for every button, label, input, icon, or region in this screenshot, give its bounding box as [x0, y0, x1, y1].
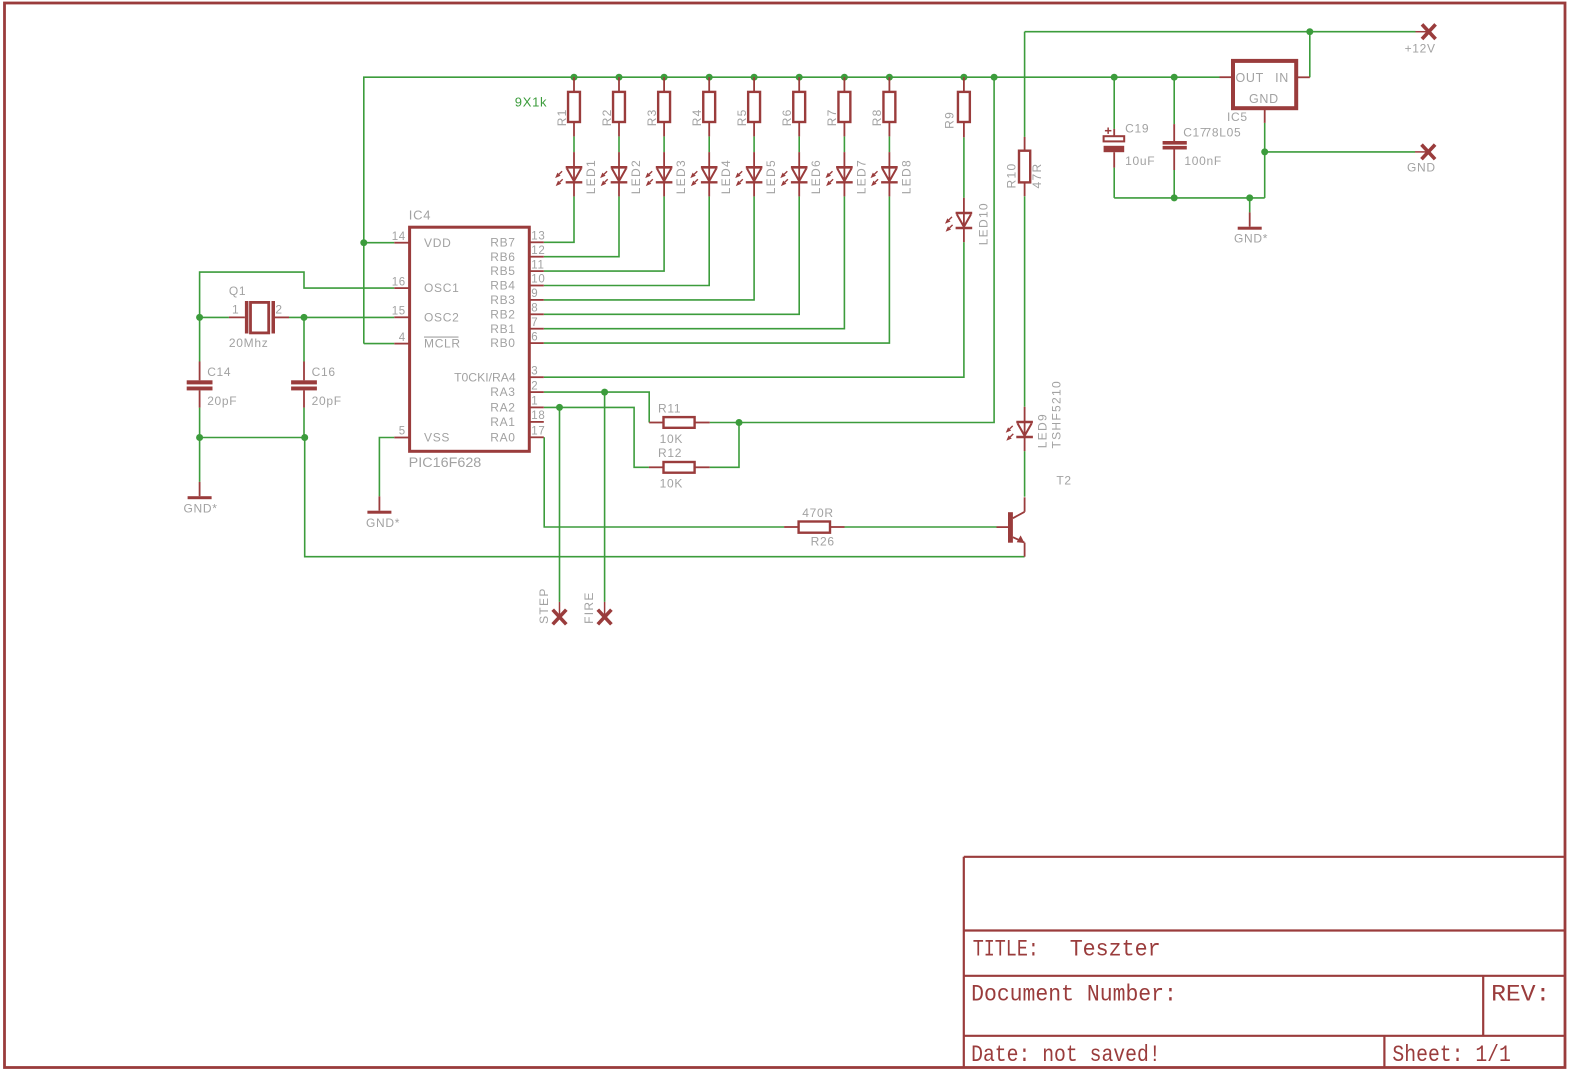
- svg-text:RA0: RA0: [490, 430, 515, 444]
- svg-text:REV:: REV:: [1491, 981, 1550, 1007]
- capacitor C19 polarized: [1113, 129, 1115, 137]
- svg-text:LED2: LED2: [629, 159, 643, 194]
- svg-text:2: 2: [531, 380, 538, 392]
- pin 3 T0CKI/RA4: [529, 376, 544, 378]
- pin 14 VDD: [394, 242, 409, 244]
- wire net RA3 to R11: [544, 392, 649, 422]
- svg-text:VSS: VSS: [424, 431, 450, 445]
- svg-text:RB6: RB6: [490, 250, 515, 264]
- wire C14 column: [199, 317, 201, 361]
- wire net RB2: [798, 136, 800, 152]
- pin 11 RB5: [529, 270, 544, 272]
- junction VDD: [360, 239, 367, 246]
- svg-text:2: 2: [275, 302, 282, 316]
- svg-text:C19: C19: [1125, 122, 1149, 136]
- wire C14 to GND: [199, 438, 201, 482]
- wire cap ground row: [1114, 197, 1265, 199]
- pin 18 RA1: [529, 421, 544, 423]
- svg-text:1: 1: [232, 302, 239, 316]
- svg-text:17: 17: [531, 426, 545, 438]
- net flag +12V: [1416, 31, 1429, 33]
- wire R11/R12 pullup to +5V: [710, 77, 994, 422]
- LED LED1: [573, 152, 575, 196]
- wire +12V to R10: [1024, 32, 1026, 137]
- LED LED4: [708, 152, 710, 196]
- svg-text:13: 13: [531, 231, 545, 243]
- LED LED3: [663, 152, 665, 196]
- svg-text:C17: C17: [1183, 126, 1207, 140]
- wire +12V to IN: [1309, 32, 1311, 78]
- junction FIRE: [601, 389, 608, 396]
- wire OSC2 / crystal: [200, 316, 229, 318]
- svg-text:GND*: GND*: [184, 501, 218, 515]
- LED LED7: [843, 152, 845, 196]
- svg-text:GND*: GND*: [1234, 232, 1268, 246]
- wire FIRE: [604, 392, 606, 602]
- pin 8 RB2: [529, 313, 544, 315]
- IC IC5 78L05 regulator: [1233, 61, 1296, 108]
- svg-text:RB4: RB4: [490, 279, 515, 293]
- junction C17 bottom: [1171, 194, 1178, 201]
- resistor R26: [784, 526, 799, 528]
- svg-text:47R: 47R: [1030, 163, 1044, 189]
- svg-text:RB5: RB5: [490, 264, 515, 278]
- wire net RB5: [663, 136, 665, 152]
- svg-text:6: 6: [531, 331, 538, 343]
- svg-text:9: 9: [531, 288, 538, 300]
- junction C14 bottom: [196, 434, 203, 441]
- LED LED8: [888, 152, 890, 196]
- svg-text:T0CKI/RA4: T0CKI/RA4: [454, 370, 516, 384]
- wire LED9 to T2 collector: [1024, 451, 1026, 497]
- svg-text:STEP: STEP: [537, 587, 551, 624]
- svg-text:LED10: LED10: [977, 202, 991, 245]
- wire net RA0 to R26: [544, 437, 784, 527]
- junction rail dots: [571, 74, 578, 81]
- resistor R8: [888, 77, 890, 92]
- resistor R6: [798, 77, 800, 92]
- pin 10 RB4: [529, 285, 544, 287]
- LED LED10: [963, 198, 965, 242]
- resistor R1: [573, 77, 575, 92]
- svg-text:R2: R2: [600, 108, 614, 126]
- svg-text:Teszter: Teszter: [1070, 937, 1161, 963]
- wire R12 link: [710, 423, 739, 468]
- resistor R10: [1024, 137, 1026, 151]
- resistor R5: [753, 77, 755, 92]
- svg-text:LED4: LED4: [719, 159, 733, 194]
- wire GND flag row: [1265, 151, 1415, 153]
- svg-text:18: 18: [531, 410, 545, 422]
- svg-text:3: 3: [531, 365, 538, 377]
- svg-text:LED1: LED1: [584, 159, 598, 194]
- svg-text:20pF: 20pF: [207, 394, 237, 408]
- wire R26 to T2 base: [845, 526, 997, 528]
- wire net RB4: [708, 136, 710, 152]
- LED LED6: [798, 152, 800, 196]
- svg-text:470R: 470R: [802, 506, 834, 520]
- wire VSS to GND: [379, 438, 394, 497]
- wire net RB7: [573, 136, 575, 152]
- wire +5V rail: [364, 77, 1220, 343]
- svg-text:LED6: LED6: [809, 159, 823, 194]
- wire MCLR pin4: [364, 343, 395, 345]
- svg-text:16: 16: [392, 276, 406, 288]
- svg-text:100nF: 100nF: [1184, 154, 1222, 168]
- LED LED5: [753, 152, 755, 196]
- pin 5 VSS: [394, 437, 409, 439]
- resistor R4: [708, 77, 710, 92]
- svg-text:Q1: Q1: [229, 284, 246, 298]
- wire net RB3: [753, 136, 755, 152]
- svg-text:LED9: LED9: [1036, 413, 1050, 448]
- net flag STEP: [559, 602, 561, 617]
- svg-text:7: 7: [531, 317, 538, 329]
- svg-text:VDD: VDD: [424, 236, 451, 250]
- junction R11 out: [736, 419, 743, 426]
- wire net RA4 / LED10: [963, 137, 965, 198]
- wire to GND*: [1249, 198, 1251, 213]
- svg-text:5: 5: [399, 426, 406, 438]
- transistor T2: [1008, 512, 1013, 543]
- pin 12 RB6: [529, 256, 544, 258]
- title block frame: [963, 857, 965, 1067]
- junction IC5 gnd: [1261, 148, 1268, 155]
- svg-text:R12: R12: [658, 446, 682, 460]
- LED LED2: [618, 152, 620, 196]
- svg-text:OUT: OUT: [1236, 71, 1265, 85]
- wire VDD pin14: [364, 242, 395, 244]
- wire C16 column: [303, 317, 305, 361]
- wire OSC1: [200, 272, 395, 317]
- svg-text:1: 1: [531, 396, 538, 408]
- wire gnd row under caps: [200, 437, 305, 439]
- pin 16 OSC1: [394, 287, 409, 289]
- svg-text:R6: R6: [780, 108, 794, 126]
- svg-text:OSC2: OSC2: [424, 310, 459, 324]
- pin 2 RA3: [529, 391, 544, 393]
- pin 4 MCLR: [394, 343, 409, 345]
- svg-text:10K: 10K: [660, 432, 683, 446]
- svg-text:IC4: IC4: [409, 208, 431, 223]
- svg-text:R5: R5: [735, 108, 749, 126]
- svg-text:OSC1: OSC1: [424, 281, 459, 295]
- wire emitter/ground bus: [305, 438, 1025, 557]
- LED LED9: [1024, 407, 1026, 451]
- net flag FIRE: [604, 602, 606, 617]
- svg-text:LED7: LED7: [854, 159, 868, 194]
- junction IN drop: [1306, 28, 1313, 35]
- svg-text:4: 4: [399, 332, 406, 344]
- svg-text:R1: R1: [555, 108, 569, 126]
- svg-text:12: 12: [531, 245, 545, 257]
- svg-text:T2: T2: [1056, 473, 1071, 487]
- svg-text:RB2: RB2: [490, 307, 515, 321]
- svg-text:IC5: IC5: [1227, 110, 1248, 124]
- svg-text:R10: R10: [1005, 163, 1019, 189]
- svg-text:Sheet: 1/1: Sheet: 1/1: [1392, 1042, 1511, 1068]
- svg-text:TITLE:: TITLE:: [973, 937, 1039, 963]
- svg-text:RB7: RB7: [490, 235, 515, 249]
- ground GND* ic5: [1249, 212, 1251, 226]
- wire C17 column: [1173, 77, 1175, 124]
- crystal Q1: [229, 316, 245, 318]
- svg-text:R8: R8: [870, 108, 884, 126]
- svg-text:GND*: GND*: [366, 516, 400, 530]
- wire net RB6: [618, 136, 620, 152]
- svg-text:GND: GND: [1249, 92, 1279, 106]
- pin 9 RB3: [529, 299, 544, 301]
- svg-text:14: 14: [392, 231, 406, 243]
- resistor R3: [663, 77, 665, 92]
- svg-text:FIRE: FIRE: [582, 591, 596, 624]
- pin 17 RA0: [529, 436, 544, 438]
- svg-text:Date: not saved!: Date: not saved!: [971, 1042, 1161, 1068]
- svg-text:RB0: RB0: [490, 336, 515, 350]
- capacitor C17 100nF: [1173, 124, 1175, 141]
- svg-text:R3: R3: [645, 108, 659, 126]
- svg-text:RB3: RB3: [490, 293, 515, 307]
- wire net RB1: [843, 136, 845, 152]
- svg-text:IN: IN: [1275, 71, 1289, 85]
- svg-text:RA2: RA2: [490, 401, 515, 415]
- svg-text:11: 11: [531, 259, 544, 271]
- svg-text:TSHF5210: TSHF5210: [1050, 380, 1064, 448]
- capacitor C16: [303, 362, 305, 381]
- junction STEP: [556, 404, 563, 411]
- svg-text:R7: R7: [825, 108, 839, 126]
- wire STEP: [559, 407, 561, 602]
- ground GND* vss: [378, 496, 380, 510]
- svg-text:20Mhz: 20Mhz: [229, 336, 269, 350]
- wire R10 to LED9: [1024, 196, 1026, 407]
- svg-text:RA3: RA3: [490, 385, 515, 399]
- svg-text:+12V: +12V: [1405, 42, 1436, 56]
- wire C19 column: [1113, 77, 1115, 129]
- svg-text:10uF: 10uF: [1125, 154, 1155, 168]
- svg-text:LED5: LED5: [764, 159, 778, 194]
- junction C16 bottom: [301, 434, 308, 441]
- svg-text:R11: R11: [658, 402, 681, 416]
- capacitor C14: [199, 362, 201, 381]
- svg-text:8: 8: [531, 303, 538, 315]
- svg-text:15: 15: [392, 306, 406, 318]
- ground GND* left: [199, 482, 201, 496]
- svg-text:MCLR: MCLR: [424, 337, 461, 351]
- svg-text:10K: 10K: [660, 476, 683, 490]
- pin 1 RA2: [529, 406, 544, 408]
- svg-text:78L05: 78L05: [1205, 126, 1242, 140]
- svg-text:20pF: 20pF: [312, 394, 342, 408]
- svg-text:LED3: LED3: [674, 159, 688, 194]
- svg-text:R26: R26: [811, 535, 835, 549]
- IC IC4 PIC16F628: [410, 227, 530, 451]
- junction Q1 pin1: [196, 314, 203, 321]
- svg-text:R9: R9: [943, 111, 957, 129]
- svg-text:R4: R4: [690, 108, 704, 126]
- svg-text:Document Number:: Document Number:: [971, 981, 1177, 1007]
- junction gnd sym drop: [1246, 194, 1253, 201]
- svg-text:RA1: RA1: [490, 415, 515, 429]
- svg-text:PIC16F628: PIC16F628: [409, 455, 482, 470]
- svg-text:GND: GND: [1407, 160, 1436, 174]
- pin 15 OSC2: [394, 316, 409, 318]
- svg-text:9X1k: 9X1k: [515, 94, 547, 109]
- svg-text:RB1: RB1: [490, 322, 515, 336]
- svg-text:C14: C14: [207, 365, 231, 379]
- junction Q1 pin2: [301, 314, 308, 321]
- wire net RA2 to R12: [544, 407, 649, 467]
- svg-text:10: 10: [531, 274, 545, 286]
- wire net RB0: [888, 136, 890, 152]
- pin 13 RB7: [529, 241, 544, 243]
- resistor R9: [963, 77, 965, 92]
- net flag GND: [1415, 151, 1428, 153]
- wire IC5 GND pin down: [1264, 123, 1266, 198]
- svg-text:LED8: LED8: [899, 159, 913, 194]
- resistor R11: [649, 422, 663, 424]
- resistor R12: [649, 466, 664, 468]
- resistor R2: [618, 77, 620, 92]
- pin 7 RB1: [529, 328, 544, 330]
- pin 6 RB0: [529, 342, 544, 344]
- svg-text:C16: C16: [312, 365, 336, 379]
- wire +12V rail: [1025, 31, 1416, 33]
- resistor R7: [843, 77, 845, 92]
